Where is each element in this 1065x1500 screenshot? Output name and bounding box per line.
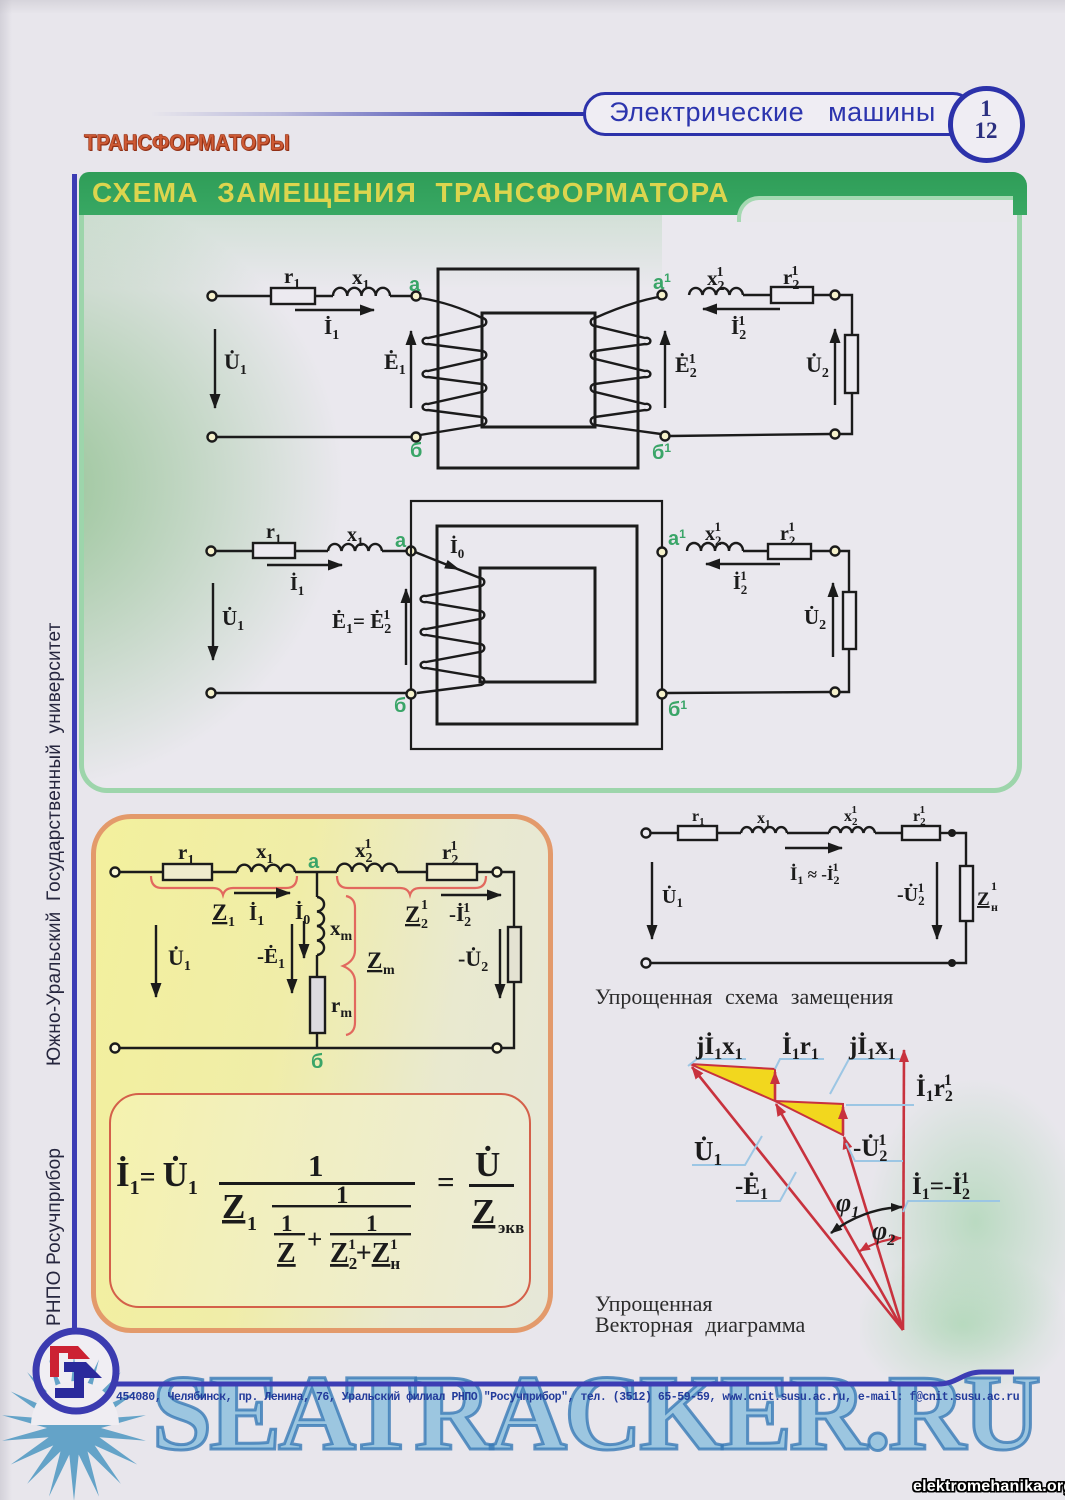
brace Z1 xyxy=(151,876,297,895)
wire xyxy=(295,550,328,552)
resistor rm xyxy=(310,977,325,1033)
svg-text:+: + xyxy=(307,1224,322,1254)
horizontal blue rule xyxy=(112,1372,1014,1384)
inductor x1 xyxy=(333,288,390,296)
voltage arrow U1 xyxy=(214,329,216,408)
node b1 secondary xyxy=(661,432,670,441)
node a xyxy=(412,292,421,301)
resistor r1 xyxy=(163,864,212,880)
node secondary top xyxy=(831,291,840,300)
emf arrow E1=E2' xyxy=(405,589,407,665)
svg-text:r21: r21 xyxy=(442,839,458,868)
emblem red element xyxy=(50,1346,90,1377)
core window xyxy=(480,568,595,682)
svg-text:İ1= U̇1: İ1= U̇1 xyxy=(116,1154,198,1199)
callout jI1x1 xyxy=(688,1059,746,1066)
current arrow I1 xyxy=(267,564,342,566)
wire bottom primary xyxy=(217,436,411,438)
node out top xyxy=(493,868,502,877)
inductor x2' xyxy=(687,543,743,551)
resistor r1 xyxy=(271,288,315,304)
wire xyxy=(120,871,163,873)
wire xyxy=(670,434,830,436)
terminal T3 bottom-left xyxy=(111,1044,120,1053)
resistor r2' xyxy=(771,287,813,303)
svg-text:Ė21: Ė21 xyxy=(675,352,697,381)
emblem circle fill xyxy=(33,1328,119,1414)
node a xyxy=(407,547,416,556)
svg-text:Z: Z xyxy=(212,900,227,925)
inductor x1 xyxy=(328,544,382,551)
wire xyxy=(840,649,849,692)
svg-text:r1: r1 xyxy=(266,521,281,546)
wire xyxy=(940,832,952,834)
svg-text:İ0: İ0 xyxy=(450,534,464,561)
wire xyxy=(502,982,514,1048)
svg-text:r1: r1 xyxy=(178,840,194,868)
svg-text:x1: x1 xyxy=(256,839,274,867)
node b1 xyxy=(658,690,667,699)
wire xyxy=(382,550,407,552)
wire xyxy=(667,692,830,693)
brace Z2' xyxy=(337,876,486,895)
terminal T1 top-left xyxy=(208,292,217,301)
svg-text:a: a xyxy=(308,851,320,873)
svg-text:1: 1 xyxy=(421,898,428,913)
wire xyxy=(217,295,271,297)
emblem circle ring xyxy=(36,1331,116,1411)
svg-text:1: 1 xyxy=(308,1148,324,1183)
svg-text:1: 1 xyxy=(247,1213,257,1235)
wire xyxy=(717,832,741,834)
voltage arrow U2 xyxy=(832,583,834,657)
svg-text:-İ21: -İ21 xyxy=(449,901,471,930)
svg-text:н: н xyxy=(991,900,998,914)
svg-text:-U̇2: -U̇2 xyxy=(458,946,488,975)
callout U1 xyxy=(692,1136,762,1165)
inductor x2' xyxy=(337,864,397,872)
svg-text:x1: x1 xyxy=(347,524,364,549)
captions xyxy=(595,984,893,1010)
node b primary xyxy=(412,433,421,442)
junction dot top xyxy=(948,829,956,837)
svg-text:-U̇21: -U̇21 xyxy=(853,1132,887,1165)
svg-text:φ2: φ2 xyxy=(872,1216,895,1249)
svg-text:r21: r21 xyxy=(780,519,795,548)
star white dome xyxy=(31,1381,119,1425)
junction dot bottom xyxy=(948,959,956,967)
voltage arrow -U2' xyxy=(936,862,938,939)
voltage arrow U1 xyxy=(651,862,653,939)
svg-text:jİ1x1: jİ1x1 xyxy=(695,1032,743,1063)
resistor r2' xyxy=(902,826,940,840)
svg-text:U̇1: U̇1 xyxy=(662,884,683,910)
vector -E1 xyxy=(776,1104,903,1330)
svg-text:x1: x1 xyxy=(352,265,370,293)
wire xyxy=(502,872,514,927)
callout jI1x2 xyxy=(830,1059,900,1094)
inductor x2' xyxy=(829,827,875,833)
svg-text:б1: б1 xyxy=(668,698,687,721)
node load bottom xyxy=(831,688,840,697)
current arrow -I2' xyxy=(441,894,501,896)
angle arc phi2 xyxy=(860,1238,901,1251)
emf arrow E2' xyxy=(664,331,666,408)
wire xyxy=(811,550,830,552)
svg-text:б: б xyxy=(311,1051,323,1073)
svg-text:Z: Z xyxy=(367,948,382,973)
magnetizing branch wire xyxy=(316,872,318,897)
svg-text:İ1r21: İ1r21 xyxy=(916,1072,953,1105)
elektromehanika.org xyxy=(913,1478,1065,1496)
svg-text:U̇2: U̇2 xyxy=(804,605,826,633)
svg-text:İ1: İ1 xyxy=(290,571,304,598)
svg-text:U̇1: U̇1 xyxy=(222,606,244,634)
svg-text:jİ1x1: jİ1x1 xyxy=(848,1032,896,1063)
svg-text:2: 2 xyxy=(421,917,428,932)
wire xyxy=(840,393,852,434)
load resistor xyxy=(508,927,521,982)
voltage arrow -U2 xyxy=(499,929,501,998)
svg-text:Z: Z xyxy=(977,889,990,910)
connecting wire rectangle a-a1-b1-b xyxy=(411,501,662,749)
wire xyxy=(316,955,318,977)
svg-text:Ė1= Ė21: Ė1= Ė21 xyxy=(332,608,391,637)
node secondary bottom xyxy=(831,430,840,439)
inductor x1 xyxy=(237,865,295,872)
header circle 1/12 xyxy=(948,86,1025,163)
resistor r1 xyxy=(253,543,295,558)
svg-text:x21: x21 xyxy=(355,837,373,866)
svg-text:-Ė1: -Ė1 xyxy=(257,944,285,972)
load resistor Zn' xyxy=(960,866,973,921)
wire bottom xyxy=(120,1047,492,1049)
emblem blue element xyxy=(55,1362,102,1398)
wire xyxy=(952,833,966,866)
svg-text:U̇1: U̇1 xyxy=(168,945,191,974)
svg-text:б1: б1 xyxy=(652,441,671,464)
inductor x1 xyxy=(741,827,787,833)
emf arrow -E1 xyxy=(291,924,293,993)
svg-text:İ0: İ0 xyxy=(295,900,310,928)
wire xyxy=(743,550,768,552)
wire xyxy=(840,551,849,592)
load resistor Zn xyxy=(845,335,858,393)
wire xyxy=(212,871,237,873)
svg-text:x21: x21 xyxy=(844,804,858,828)
svg-text:экв: экв xyxy=(498,1218,524,1237)
wire xyxy=(875,832,902,834)
svg-text:-Ė1: -Ė1 xyxy=(735,1172,768,1203)
wire xyxy=(315,295,333,297)
callout I1r2' xyxy=(846,1104,914,1106)
formula main fraction bar xyxy=(219,1182,415,1185)
magnetizing winding xyxy=(415,552,484,693)
core outer xyxy=(437,526,637,724)
svg-text:İ1: İ1 xyxy=(324,315,339,343)
inductor xm xyxy=(317,897,324,955)
current arrow I0 xyxy=(444,560,460,570)
callout I1r1 xyxy=(775,1059,824,1069)
svg-text:x21: x21 xyxy=(707,265,725,294)
svg-text:-U̇21: -U̇21 xyxy=(897,880,925,908)
current arrow I1 xyxy=(295,309,374,311)
svg-text:U̇: U̇ xyxy=(475,1144,500,1184)
svg-text:a: a xyxy=(395,530,407,552)
transformer core outer xyxy=(438,269,638,468)
current arrow I2' xyxy=(703,308,780,310)
formula nested fraction bar xyxy=(272,1205,411,1207)
vector I1 xyxy=(903,1050,904,1330)
svg-text:r21: r21 xyxy=(783,264,799,293)
svg-text:a1: a1 xyxy=(668,527,686,550)
terminal T2 top-left xyxy=(207,547,216,556)
green wash bottom-right xyxy=(830,1030,1065,1400)
emf arrow E1 xyxy=(410,331,412,408)
svg-text:Z: Z xyxy=(405,902,420,927)
voltage arrow U1 xyxy=(155,925,157,997)
svg-text:m: m xyxy=(383,963,395,978)
node load top xyxy=(831,547,840,556)
wire xyxy=(397,871,427,873)
banner window corner (top-right inset) xyxy=(737,196,1013,222)
resistor r1 xyxy=(678,826,717,840)
callout -U2' xyxy=(846,1143,903,1161)
formula box xyxy=(109,1093,531,1308)
left vertical blue line xyxy=(72,174,77,1331)
triangle jI1x2/I1r2 (impedance drop 2) xyxy=(775,1101,843,1135)
svg-text:Z: Z xyxy=(222,1187,245,1226)
wire bottom xyxy=(216,692,406,694)
current arrow I2' xyxy=(706,563,780,565)
address line xyxy=(116,1391,1019,1404)
wire xyxy=(743,294,771,296)
svg-text:б: б xyxy=(394,695,406,717)
terminal S bottom-left xyxy=(642,959,651,968)
svg-text:İ21: İ21 xyxy=(731,314,746,343)
svg-text:1: 1 xyxy=(991,879,997,893)
terminal T3 top-left xyxy=(111,868,120,877)
segment I1r1 xyxy=(774,1072,777,1101)
svg-text:r21: r21 xyxy=(913,804,926,828)
callout -E1 xyxy=(736,1172,796,1201)
seatracker star logo xyxy=(2,1355,146,1500)
svg-text:İ1: İ1 xyxy=(249,901,264,929)
watermark SEATRACKER.RU xyxy=(152,1352,1044,1476)
resistor r2' xyxy=(768,544,811,559)
primary winding W1 xyxy=(420,298,486,435)
svg-text:rm: rm xyxy=(331,993,352,1021)
transformer core window xyxy=(482,313,595,427)
node a1 xyxy=(658,548,667,557)
header pill xyxy=(583,92,975,136)
node out bottom xyxy=(493,1044,502,1053)
svg-text:x21: x21 xyxy=(705,519,722,548)
current arrow I1=-I2' xyxy=(785,847,842,849)
svg-text:1: 1 xyxy=(336,1182,349,1209)
svg-text:a: a xyxy=(409,274,421,296)
secondary winding W2 xyxy=(591,297,661,434)
wire xyxy=(316,1033,318,1048)
yellow rounded box xyxy=(91,814,553,1333)
wire xyxy=(651,832,678,834)
node b xyxy=(407,690,416,699)
svg-text:İ1r1: İ1r1 xyxy=(782,1032,819,1063)
svg-text:φ1: φ1 xyxy=(836,1188,859,1221)
vector -U2' xyxy=(844,1137,903,1330)
voltage arrow U2 xyxy=(834,329,836,405)
angle arc phi1 xyxy=(831,1207,902,1233)
wire bottom xyxy=(651,962,952,964)
svg-text:U̇2: U̇2 xyxy=(806,352,829,381)
triangle jI1x1/I1r1 (impedance drop 1) xyxy=(690,1064,775,1101)
svg-text:r1: r1 xyxy=(284,264,300,292)
svg-text:Z: Z xyxy=(472,1192,495,1231)
svg-text:İ21: İ21 xyxy=(733,568,747,597)
header line to pill xyxy=(150,112,587,116)
TRANSFORMATORY red title xyxy=(84,130,290,156)
vector U1 xyxy=(692,1067,903,1330)
node a1 secondary xyxy=(658,291,667,300)
terminal S top-left xyxy=(642,829,651,838)
callout I1=-I2' xyxy=(903,1201,1000,1212)
load resistor xyxy=(843,592,856,649)
svg-text:1: 1 xyxy=(228,915,235,930)
green banner xyxy=(79,172,1027,215)
svg-text:Ė1: Ė1 xyxy=(384,349,406,378)
wire xyxy=(813,294,830,296)
svg-text:Z: Z xyxy=(277,1238,296,1269)
svg-text:б: б xyxy=(410,440,422,462)
svg-text:İ1 ≈ -İ21: İ1 ≈ -İ21 xyxy=(790,860,840,887)
wire xyxy=(216,550,253,552)
inductor x2' xyxy=(689,288,743,295)
voltage arrow U1 xyxy=(212,583,214,660)
terminal T2 bottom-left xyxy=(207,689,216,698)
wire xyxy=(390,295,412,297)
wire xyxy=(787,832,829,834)
left vertical university text xyxy=(44,622,66,1066)
wire xyxy=(840,295,852,335)
svg-text:a1: a1 xyxy=(653,271,671,294)
svg-text:1: 1 xyxy=(281,1211,293,1236)
wire xyxy=(477,871,492,873)
svg-text:Z21+Zн1: Z21+Zн1 xyxy=(330,1237,400,1273)
left vertical RNPO text xyxy=(44,1148,66,1326)
svg-text:U̇1: U̇1 xyxy=(224,349,247,378)
terminal T1 bottom-left xyxy=(208,433,217,442)
current arrow I1 xyxy=(234,892,290,894)
svg-text:=: = xyxy=(437,1164,455,1199)
wire through node a xyxy=(295,871,337,873)
big content box xyxy=(79,215,1022,793)
brace Zm xyxy=(343,896,355,1035)
current arrow I0 xyxy=(303,921,305,958)
wire xyxy=(952,921,966,963)
svg-text:U̇1: U̇1 xyxy=(694,1136,722,1169)
svg-text:xm: xm xyxy=(330,916,353,944)
segment I1r2' xyxy=(842,1107,845,1135)
resistor r2' xyxy=(427,864,477,880)
svg-text:1: 1 xyxy=(366,1211,378,1236)
svg-text:İ1=-İ21: İ1=-İ21 xyxy=(912,1170,970,1203)
